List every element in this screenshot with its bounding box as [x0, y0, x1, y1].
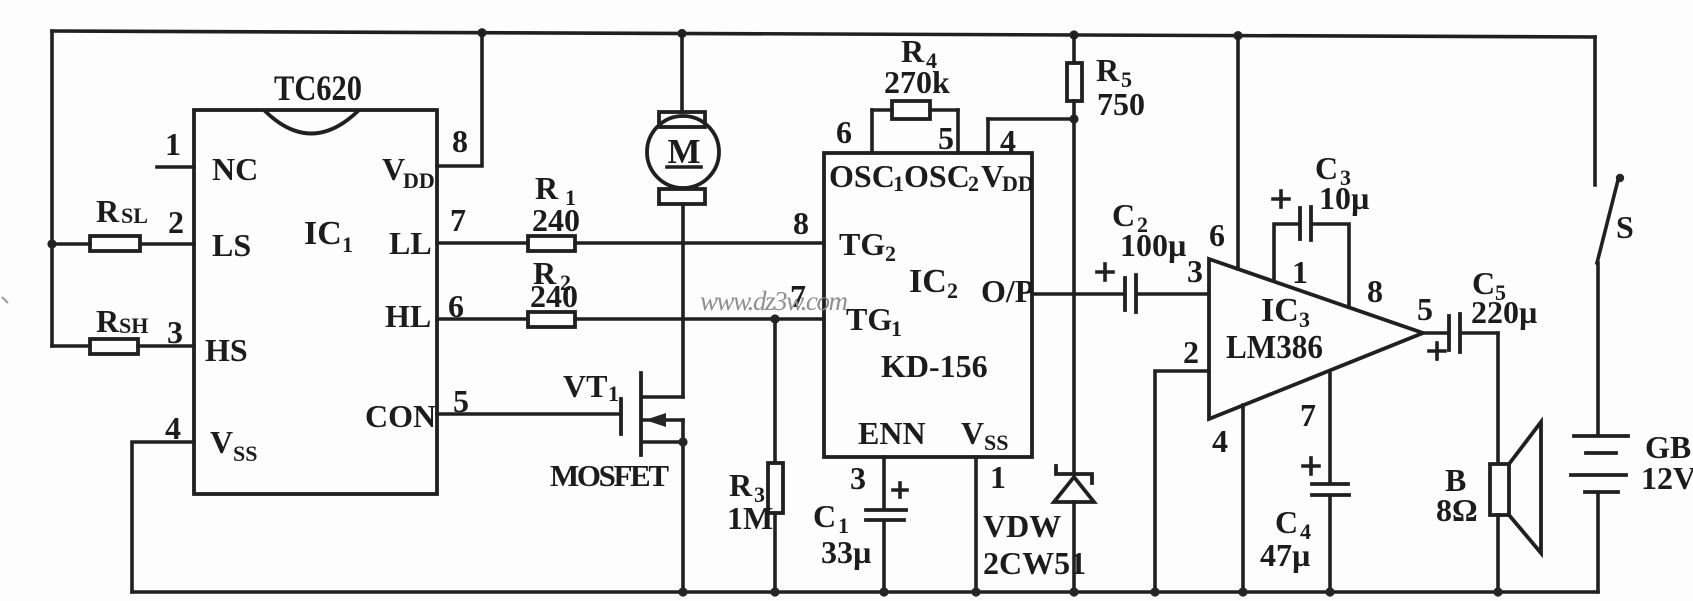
svg-text:1: 1 [893, 171, 904, 196]
diode VDW 2CW51 zener [983, 466, 1094, 597]
svg-text:IC: IC [1261, 292, 1299, 329]
resistor RSL [52, 193, 194, 251]
svg-text:S: S [1616, 209, 1634, 245]
wire CON to MOSFET gate [437, 412, 619, 416]
svg-text:DD: DD [403, 168, 435, 193]
svg-text:240: 240 [530, 278, 578, 314]
svg-text:6: 6 [836, 114, 852, 150]
pin 4 VDD of IC2 wire to R5 node [988, 114, 1079, 159]
node junction top of LM386 pin6 riser [1233, 31, 1242, 40]
svg-text:DD: DD [1002, 171, 1034, 196]
node junction top of motor branch [677, 29, 686, 38]
svg-text:V: V [981, 158, 1004, 194]
resistor R1 240 [437, 170, 580, 251]
svg-text:4: 4 [1000, 123, 1016, 159]
svg-text:LS: LS [212, 227, 251, 263]
svg-text:MOSFET: MOSFET [550, 458, 669, 493]
svg-text:3: 3 [167, 314, 183, 350]
pin 2 LS label [168, 204, 251, 263]
wire R1 to TG2 [575, 241, 824, 245]
svg-text:M: M [667, 132, 700, 171]
svg-text:OSC: OSC [904, 158, 970, 194]
svg-text:12V: 12V [1641, 460, 1693, 496]
svg-text:R: R [535, 170, 559, 206]
svg-text:2: 2 [885, 241, 896, 266]
svg-text:7: 7 [450, 202, 466, 238]
pin 5 CON label [365, 383, 469, 434]
pin 7 LL label [389, 202, 466, 261]
node junction left rail / RSL [47, 239, 56, 248]
svg-text:5: 5 [938, 120, 954, 156]
svg-text:3: 3 [850, 460, 866, 496]
capacitor C4 47u on pin 7 [1260, 371, 1349, 597]
svg-text:SH: SH [119, 313, 148, 338]
svg-text:IC: IC [304, 215, 342, 252]
node junction top of VDD pin8 riser [477, 28, 486, 37]
svg-text:4: 4 [165, 410, 181, 446]
svg-text:2: 2 [168, 204, 184, 240]
svg-text:33µ: 33µ [821, 534, 871, 570]
svg-text:2CW51: 2CW51 [983, 545, 1086, 581]
resistor RSH [52, 303, 194, 354]
transistor VT1 MOSFET [550, 368, 688, 597]
svg-text:220µ: 220µ [1471, 294, 1537, 330]
svg-text:C: C [1275, 504, 1298, 540]
stray scan mark [2, 297, 8, 303]
wire C5 down to speaker [1493, 333, 1502, 597]
svg-text:10µ: 10µ [1319, 180, 1369, 216]
svg-text:TG: TG [839, 226, 885, 262]
resistor R4 270k bridge OSC1-OSC2 [836, 33, 958, 156]
svg-text:SS: SS [233, 441, 257, 466]
svg-text:CON: CON [365, 398, 436, 434]
svg-text:7: 7 [1300, 397, 1316, 433]
node junction top of R5 [1069, 30, 1078, 39]
pin 6 HL label [385, 288, 464, 334]
svg-text:1: 1 [891, 316, 902, 341]
resistor R3 1M [727, 314, 783, 596]
svg-text:2: 2 [968, 171, 979, 196]
svg-text:TC620: TC620 [274, 68, 362, 108]
svg-text:47µ: 47µ [1260, 537, 1310, 573]
pin 2 wire of LM386 to bottom rail [1150, 334, 1209, 597]
pin 6 riser of LM386 to top rail [1209, 36, 1238, 269]
svg-text:V: V [961, 415, 984, 451]
speaker B 8ohm [1436, 422, 1541, 553]
svg-text:1: 1 [165, 126, 181, 162]
svg-text:2: 2 [1183, 334, 1199, 370]
svg-text:1: 1 [990, 459, 1006, 495]
svg-text:OSC: OSC [829, 158, 895, 194]
svg-text:8: 8 [1367, 273, 1383, 309]
svg-text:8: 8 [793, 205, 809, 241]
wire left rail [50, 31, 54, 346]
IC U2 KD-156 box [824, 153, 1034, 457]
resistor R5 750 [1067, 34, 1145, 122]
capacitor C1 33u [813, 457, 907, 597]
svg-text:HL: HL [385, 298, 431, 334]
pin 1 VSS of IC2 wire to bottom rail [971, 457, 1006, 597]
svg-text:1: 1 [608, 381, 619, 406]
resistor R2 240 [437, 255, 578, 327]
svg-text:2: 2 [947, 278, 958, 303]
svg-text:C: C [813, 498, 836, 534]
svg-text:1: 1 [342, 232, 353, 257]
pin 3 HS label [167, 314, 248, 368]
svg-text:1: 1 [1292, 254, 1308, 290]
svg-text:IC: IC [909, 263, 947, 300]
svg-text:TG: TG [846, 301, 892, 337]
svg-text:8Ω: 8Ω [1436, 492, 1478, 528]
svg-text:V: V [382, 151, 405, 187]
svg-text:V: V [210, 424, 233, 460]
wire R2 to TG1 [575, 317, 824, 321]
svg-text:NC: NC [212, 151, 258, 187]
svg-text:270k: 270k [884, 64, 950, 100]
capacitor C5 220u on output pin 5 [1417, 265, 1537, 359]
op-amp U3 LM386 triangle [1209, 259, 1423, 419]
svg-text:R: R [96, 303, 120, 339]
wire top rail [52, 31, 1595, 37]
wire bottom rail [132, 590, 1598, 594]
svg-text:750: 750 [1097, 86, 1145, 122]
pin 1 NC stub [157, 126, 258, 187]
svg-text:R: R [729, 467, 753, 503]
svg-text:1M: 1M [727, 500, 773, 536]
wire R5 node down to zener [1072, 119, 1076, 474]
svg-text:www.dz3w.com: www.dz3w.com [700, 286, 848, 316]
motor M [647, 33, 719, 397]
svg-text:5: 5 [1417, 291, 1433, 327]
svg-text:ENN: ENN [858, 415, 926, 451]
svg-text:LL: LL [389, 225, 432, 261]
svg-text:R: R [1096, 52, 1120, 88]
IC U1 TC620 box [194, 68, 437, 494]
capacitor C3 10u bridging pins 1 and 8 [1273, 150, 1369, 307]
svg-text:VT: VT [563, 368, 607, 404]
svg-text:O/P: O/P [981, 273, 1034, 309]
svg-text:VDW: VDW [983, 508, 1061, 544]
pin 8 VDD wire to top rail [382, 32, 482, 193]
battery GB 12V [1571, 263, 1693, 592]
svg-text:R: R [96, 193, 120, 229]
svg-text:6: 6 [1209, 217, 1225, 253]
svg-text:LM386: LM386 [1226, 329, 1323, 366]
svg-text:8: 8 [452, 123, 468, 159]
svg-text:3: 3 [1187, 253, 1203, 289]
svg-text:HS: HS [205, 332, 248, 368]
switch S [1595, 37, 1634, 263]
pin 4 wire of LM386 to bottom rail [1212, 405, 1248, 597]
svg-text:4: 4 [1212, 423, 1228, 459]
svg-text:240: 240 [532, 202, 580, 238]
svg-text:SS: SS [984, 430, 1008, 455]
capacitor C2 100u [1032, 197, 1209, 312]
svg-text:KD-156: KD-156 [881, 348, 988, 384]
svg-text:100µ: 100µ [1120, 227, 1186, 263]
svg-text:SL: SL [121, 203, 148, 228]
pin 4 VSS wire to bottom rail [132, 410, 257, 592]
